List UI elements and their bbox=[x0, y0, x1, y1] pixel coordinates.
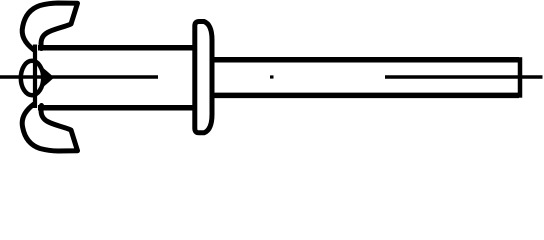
lower peeled petal bbox=[22, 104, 77, 151]
centerline left long dash bbox=[0, 75, 158, 78]
upper peeled petal bbox=[22, 3, 77, 50]
mandrel stem top line bbox=[210, 57, 519, 63]
mandrel stem bottom line bbox=[210, 93, 519, 99]
centerline right long dash bbox=[385, 75, 543, 78]
mandrel stem end face bbox=[518, 57, 523, 97]
centerline short dash bbox=[270, 75, 274, 78]
rivet body top line bbox=[38, 45, 194, 51]
mandrel head vertical centerline bbox=[33, 45, 37, 109]
mandrel head wedge bbox=[42, 67, 54, 88]
flange dome head bbox=[195, 22, 212, 133]
mandrel head ball bbox=[21, 61, 43, 95]
rivet body bottom line bbox=[38, 105, 194, 111]
